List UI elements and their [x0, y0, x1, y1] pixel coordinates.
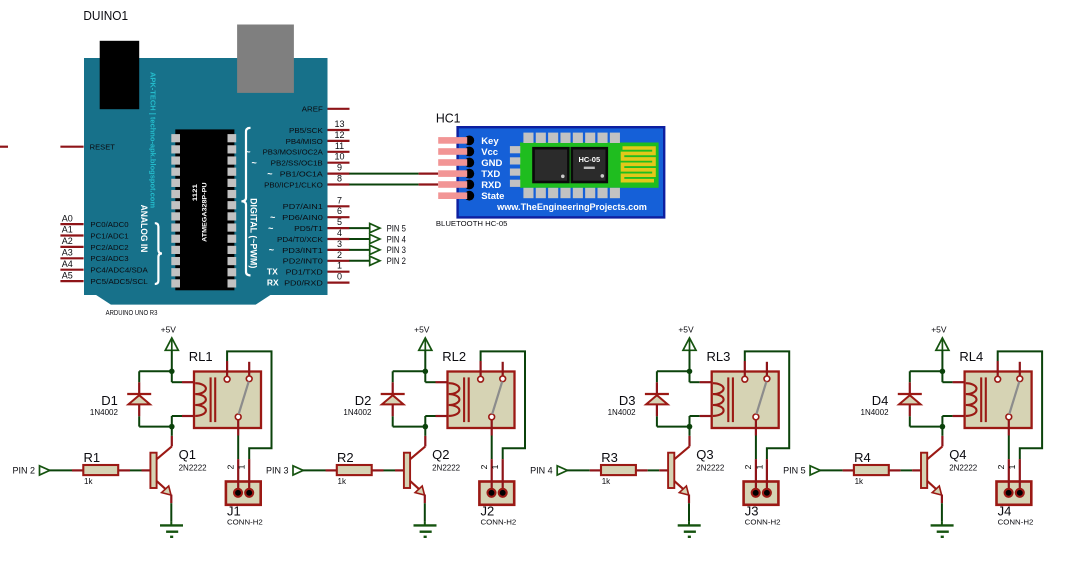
resistor R1 1k: [72, 450, 130, 486]
connector J2 CONN-H2: [479, 459, 516, 526]
relay RL4: [953, 349, 1032, 435]
wire pin 9 to HC1 TXD: [349, 173, 418, 175]
svg-text:A1: A1: [62, 225, 73, 235]
svg-text:D4: D4: [872, 393, 889, 408]
connector J1 CONN-H2: [225, 459, 262, 526]
wire pin 8 to HC1 RXD: [349, 184, 418, 186]
svg-text:TXD: TXD: [481, 169, 500, 180]
svg-text:~: ~: [269, 245, 274, 255]
HC1 pin GND: [438, 158, 502, 169]
svg-text:PC4/ADC4/SDA: PC4/ADC4/SDA: [90, 266, 147, 275]
svg-text:2N2222: 2N2222: [179, 463, 208, 472]
wire top node to relay coil: [172, 371, 182, 382]
pin A0 PC0/ADC0: [60, 213, 128, 229]
svg-text:2: 2: [337, 250, 342, 260]
svg-text:ANALOG IN: ANALOG IN: [138, 205, 149, 253]
diode D3 1N4002: [608, 382, 669, 417]
junction bottom node: [169, 424, 175, 430]
wire diode anode to node: [393, 416, 426, 426]
svg-text:~: ~: [270, 212, 275, 222]
wire bottom node to relay coil: [690, 416, 700, 427]
svg-text:PIN 2: PIN 2: [387, 256, 406, 266]
svg-text:APK-TECH | techno-apk.blogspot: APK-TECH | techno-apk.blogspot.com: [149, 72, 158, 208]
svg-text:~: ~: [267, 169, 272, 179]
svg-text:RL4: RL4: [959, 349, 983, 364]
analog group brace: [155, 223, 162, 284]
resistor R4 1k: [843, 450, 901, 486]
svg-text:R4: R4: [854, 450, 871, 465]
terminal PIN 3 input: [266, 466, 303, 476]
wire bottom node to relay coil: [942, 416, 952, 427]
svg-text:CONN-H2: CONN-H2: [227, 517, 263, 526]
wire top node to relay coil: [942, 371, 952, 382]
svg-text:Key: Key: [481, 136, 499, 147]
pin 6 PD6/AIN0: [270, 206, 349, 222]
svg-text:RL1: RL1: [189, 349, 213, 364]
wire resistor to transistor base: [901, 469, 913, 471]
resistor R2 1k: [326, 450, 384, 486]
svg-text:3: 3: [337, 239, 342, 249]
svg-text:1: 1: [490, 464, 500, 469]
svg-text:PIN 5: PIN 5: [783, 466, 806, 476]
svg-text:PC3/ADC3: PC3/ADC3: [90, 254, 128, 263]
svg-text:PB3/MOSI/OC2A: PB3/MOSI/OC2A: [263, 148, 323, 157]
svg-text:PD5/T1: PD5/T1: [294, 224, 323, 233]
svg-text:AREF: AREF: [302, 105, 323, 114]
diode D4 1N4002: [861, 382, 922, 417]
HC1 green PCB sub-module: [520, 143, 659, 188]
wire relay pole to J connector pin 1: [227, 351, 271, 459]
svg-text:~: ~: [245, 147, 250, 157]
DIGITAL (~PWM) group label: [248, 198, 259, 268]
wire relay contact to J connector pin 2: [755, 436, 757, 460]
arduino board DUINO1: [84, 58, 328, 305]
svg-text:HC1: HC1: [436, 110, 461, 125]
svg-text:RL2: RL2: [442, 349, 466, 364]
svg-text:A3: A3: [62, 248, 73, 258]
wire input to resistor: [567, 469, 590, 471]
connector J4 CONN-H2: [996, 459, 1033, 526]
svg-text:1: 1: [1007, 464, 1017, 469]
wire resistor to transistor base: [130, 469, 142, 471]
svg-text:D1: D1: [101, 393, 118, 408]
svg-text:PB5/SCK: PB5/SCK: [289, 126, 323, 135]
svg-text:R3: R3: [601, 450, 618, 465]
svg-text:+5V: +5V: [161, 324, 177, 334]
wire resistor to transistor base: [384, 469, 396, 471]
HC1 reference label: [436, 110, 461, 125]
svg-text:RL3: RL3: [707, 349, 731, 364]
pin 9 PB1/OC1A: [267, 163, 349, 179]
svg-text:1k: 1k: [84, 477, 93, 486]
junction bottom node: [423, 424, 429, 430]
connector J3 CONN-H2: [743, 459, 780, 526]
HC1 value label: [436, 219, 508, 228]
svg-text:~: ~: [268, 223, 273, 233]
svg-text:1k: 1k: [855, 477, 864, 486]
svg-text:A0: A0: [62, 213, 73, 223]
svg-text:10: 10: [334, 152, 344, 162]
svg-text:CONN-H2: CONN-H2: [481, 517, 517, 526]
board name label: [106, 308, 158, 317]
svg-text:PD6/AIN0: PD6/AIN0: [282, 213, 323, 222]
svg-text:Q2: Q2: [432, 447, 449, 462]
svg-text:A4: A4: [62, 259, 73, 269]
wire input to resistor: [303, 469, 326, 471]
wire bottom node to relay coil: [172, 416, 182, 427]
transistor Q3 2N2222: [659, 436, 725, 503]
svg-text:1N4002: 1N4002: [90, 408, 119, 417]
HC1 antenna meander: [623, 148, 655, 181]
terminal PIN 2 input: [12, 466, 49, 476]
svg-text:6: 6: [337, 206, 342, 216]
svg-text:PB0/ICP1/CLKO: PB0/ICP1/CLKO: [264, 180, 323, 189]
wire node to collector: [424, 427, 426, 436]
HC1 website silkscreen: [496, 202, 647, 213]
svg-text:TX: TX: [267, 267, 278, 277]
svg-text:RXD: RXD: [481, 180, 501, 191]
svg-text:DIGITAL (~PWM): DIGITAL (~PWM): [248, 198, 259, 268]
wire emitter to ground: [170, 503, 172, 521]
wire relay pole to J connector pin 1: [745, 351, 789, 459]
wire diode anode to node: [657, 416, 690, 426]
terminal PIN 4 from arduino: [349, 234, 406, 244]
svg-text:12: 12: [334, 130, 344, 140]
svg-text:PC2/ADC2: PC2/ADC2: [90, 243, 128, 252]
svg-text:1: 1: [754, 464, 764, 469]
svg-text:BLUETOOTH HC-05: BLUETOOTH HC-05: [436, 219, 508, 228]
ground: [414, 521, 437, 536]
svg-text:PD2/INT0: PD2/INT0: [283, 257, 323, 266]
pin A2 PC2/ADC2: [60, 236, 128, 252]
svg-text:2: 2: [996, 464, 1006, 469]
+5V power terminal: [678, 324, 696, 350]
ground: [678, 521, 701, 536]
HC1 pin RXD: [438, 180, 501, 191]
wire +5V to node: [941, 350, 943, 371]
pin 12 PB4/MISO: [286, 130, 350, 146]
svg-text:5: 5: [337, 217, 342, 227]
svg-text:ATMEGA328P-PU: ATMEGA328P-PU: [202, 182, 209, 242]
HC1 pin TXD: [438, 169, 500, 180]
svg-text:0: 0: [337, 272, 342, 282]
svg-text:D3: D3: [619, 393, 636, 408]
relay RL1: [182, 349, 261, 435]
junction top node: [423, 369, 429, 375]
svg-text:GND: GND: [481, 158, 502, 169]
svg-text:PD1/TXD: PD1/TXD: [286, 268, 324, 277]
transistor Q1 2N2222: [142, 436, 208, 503]
pin 2 PD2/INT0: [283, 250, 350, 266]
svg-text:D2: D2: [355, 393, 372, 408]
svg-text:PC0/ADC0: PC0/ADC0: [90, 220, 128, 229]
svg-text:PIN 2: PIN 2: [12, 466, 35, 476]
junction top node: [940, 369, 946, 375]
pin A5 PC5/ADC5/SCL: [60, 270, 147, 286]
relay RL2: [436, 349, 515, 435]
svg-text:1N4002: 1N4002: [608, 408, 637, 417]
svg-text:Q4: Q4: [949, 447, 966, 462]
wire node to diode cathode: [910, 371, 943, 382]
svg-text:~: ~: [252, 158, 257, 168]
wire node to collector: [941, 427, 943, 436]
terminal PIN 5 input: [783, 466, 820, 476]
pin A4 PC4/ADC4/SDA: [60, 259, 147, 275]
svg-text:PB4/MISO: PB4/MISO: [286, 137, 323, 146]
wire node to diode cathode: [393, 371, 426, 382]
svg-text:11: 11: [335, 141, 344, 151]
diode D2 1N4002: [343, 382, 404, 417]
svg-text:9: 9: [337, 163, 342, 173]
svg-text:+5V: +5V: [414, 324, 430, 334]
resistor R3 1k: [590, 450, 648, 486]
wire node to diode cathode: [139, 371, 172, 382]
svg-text:PIN 5: PIN 5: [387, 223, 406, 233]
wire resistor to transistor base: [648, 469, 660, 471]
wire relay contact to J connector pin 2: [237, 436, 239, 460]
svg-text:Vcc: Vcc: [481, 147, 498, 158]
wire +5V to node: [689, 350, 691, 371]
terminal PIN 2 from arduino: [349, 256, 406, 266]
wire +5V to node: [171, 350, 173, 371]
wire bottom node to relay coil: [425, 416, 435, 427]
svg-text:1N4002: 1N4002: [343, 408, 372, 417]
HC1 pin Vcc: [438, 147, 498, 158]
wire input to resistor: [49, 469, 72, 471]
svg-text:CONN-H2: CONN-H2: [998, 517, 1034, 526]
transistor Q2 2N2222: [395, 436, 461, 503]
+5V power terminal: [161, 324, 179, 350]
HC1 chip 2 HC-05: [572, 148, 607, 182]
svg-text:R1: R1: [84, 450, 101, 465]
pin A3 PC3/ADC3: [60, 248, 128, 264]
svg-text:RX: RX: [267, 278, 279, 288]
svg-text:R2: R2: [337, 450, 354, 465]
HC1 pin stub TXD: [419, 173, 439, 175]
junction top node: [687, 369, 693, 375]
pin 10 PB2/SS/OC1B: [252, 152, 350, 168]
wire diode anode to node: [139, 416, 172, 426]
wire emitter to ground: [688, 503, 690, 521]
pin 3 PD3/INT1: [269, 239, 350, 255]
junction top node: [169, 369, 175, 375]
svg-text:2N2222: 2N2222: [432, 463, 461, 472]
svg-text:PD0/RXD: PD0/RXD: [284, 279, 323, 288]
relay RL3: [700, 349, 779, 435]
ANALOG IN group label: [138, 205, 149, 253]
DUINO1 reference label: [83, 8, 128, 23]
+5V power terminal: [414, 324, 432, 350]
ground: [931, 521, 954, 536]
svg-text:A5: A5: [62, 270, 73, 280]
svg-text:2N2222: 2N2222: [696, 463, 725, 472]
diode D1 1N4002: [90, 382, 151, 417]
pin 8 PB0/ICP1/CLKO: [264, 174, 349, 190]
svg-text:1: 1: [237, 464, 247, 469]
pin 0 PD0/RXD: [267, 272, 350, 288]
svg-text:8: 8: [337, 174, 342, 184]
svg-text:Q3: Q3: [696, 447, 713, 462]
svg-text:Q1: Q1: [179, 447, 196, 462]
+5V power terminal: [931, 324, 949, 350]
svg-text:PIN 3: PIN 3: [266, 466, 289, 476]
ground: [160, 521, 183, 536]
svg-text:DUINO1: DUINO1: [83, 8, 128, 23]
pin AREF: [302, 105, 350, 114]
svg-text:13: 13: [334, 119, 344, 129]
junction bottom node: [940, 424, 946, 430]
svg-text:PIN 4: PIN 4: [530, 466, 553, 476]
svg-text:+5V: +5V: [678, 324, 694, 334]
svg-text:7: 7: [337, 195, 342, 205]
clipped wire at left edge: [0, 146, 8, 148]
svg-text:RESET: RESET: [90, 143, 116, 152]
pin RESET: [60, 143, 115, 152]
HC1 pin stub RXD: [419, 183, 439, 185]
junction bottom node: [687, 424, 693, 430]
pin 7 PD7/AIN1: [283, 195, 350, 211]
svg-text:ARDUINO UNO R3: ARDUINO UNO R3: [106, 308, 158, 317]
ATMEGA328P chip U1: [171, 129, 236, 290]
svg-text:PD3/INT1: PD3/INT1: [282, 246, 323, 255]
svg-text:+5V: +5V: [931, 324, 947, 334]
wire +5V to node: [424, 350, 426, 371]
HC1 SMD pads: [510, 133, 620, 199]
wire diode anode to node: [910, 416, 943, 426]
wire input to resistor: [820, 469, 843, 471]
wire emitter to ground: [941, 503, 943, 521]
svg-text:PIN 3: PIN 3: [387, 245, 406, 255]
wire relay pole to J connector pin 1: [481, 351, 525, 459]
svg-text:PB1/OC1A: PB1/OC1A: [280, 170, 323, 179]
svg-text:State: State: [481, 191, 504, 202]
wire relay pole to J connector pin 1: [998, 351, 1042, 459]
terminal PIN 3 from arduino: [349, 245, 406, 255]
svg-text:1k: 1k: [338, 477, 347, 486]
pin 13 PB5/SCK: [289, 119, 350, 135]
svg-text:HC-05: HC-05: [578, 155, 600, 164]
wire node to collector: [689, 427, 691, 436]
wire top node to relay coil: [690, 371, 700, 382]
svg-text:CONN-H2: CONN-H2: [745, 517, 781, 526]
pin 1 PD1/TXD: [267, 261, 350, 277]
svg-text:PC5/ADC5/SCL: PC5/ADC5/SCL: [90, 277, 147, 286]
svg-text:A2: A2: [62, 236, 73, 246]
HC1 chip 1: [534, 148, 569, 182]
svg-text:1121: 1121: [193, 183, 199, 201]
svg-text:PC1/ADC1: PC1/ADC1: [90, 231, 128, 240]
terminal PIN 5 from arduino: [349, 223, 406, 233]
pin 5 PD5/T1: [268, 217, 349, 233]
svg-text:PD4/T0/XCK: PD4/T0/XCK: [277, 235, 323, 244]
svg-text:1k: 1k: [602, 477, 611, 486]
svg-text:www.TheEngineeringProjects.com: www.TheEngineeringProjects.com: [496, 202, 647, 213]
digital group brace: [241, 128, 250, 276]
wire node to collector: [171, 427, 173, 436]
svg-text:2: 2: [225, 464, 235, 469]
terminal PIN 4 input: [530, 466, 567, 476]
arduino USB connector: [237, 25, 294, 93]
wire node to diode cathode: [657, 371, 690, 382]
wire relay contact to J connector pin 2: [1008, 436, 1010, 460]
wire top node to relay coil: [425, 371, 435, 382]
svg-text:PD7/AIN1: PD7/AIN1: [283, 202, 323, 211]
svg-text:2: 2: [479, 464, 489, 469]
arduino DC power jack: [100, 41, 140, 109]
wire emitter to ground: [424, 503, 426, 521]
wire relay contact to J connector pin 2: [491, 436, 493, 460]
bluetooth module HC1 board: [458, 127, 665, 217]
silkscreen text APK-TECH: [149, 72, 158, 208]
pin A1 PC1/ADC1: [60, 225, 128, 241]
svg-text:2N2222: 2N2222: [949, 463, 978, 472]
svg-text:PB2/SS/OC1B: PB2/SS/OC1B: [271, 159, 323, 168]
HC1 pin State: [438, 191, 504, 202]
svg-text:1: 1: [337, 261, 342, 271]
pin 4 PD4/T0/XCK: [277, 228, 350, 244]
svg-text:PIN 4: PIN 4: [387, 234, 406, 244]
svg-text:4: 4: [337, 228, 342, 238]
svg-text:1N4002: 1N4002: [861, 408, 890, 417]
svg-text:2: 2: [743, 464, 753, 469]
pin 11 PB3/MOSI/OC2A: [245, 141, 349, 157]
HC1 pin Key: [438, 136, 499, 147]
transistor Q4 2N2222: [912, 436, 978, 503]
